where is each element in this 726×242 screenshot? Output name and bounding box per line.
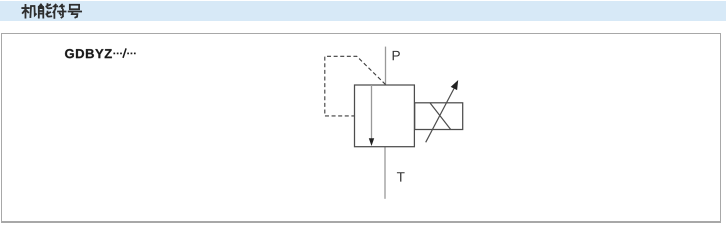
glyph 符 [53, 5, 65, 18]
glyph 号 [69, 5, 81, 18]
solenoid X diagonal [430, 103, 451, 130]
wire T port line [384, 147, 386, 199]
wire P port line [385, 47, 387, 85]
wire internal flow line [371, 85, 373, 140]
arrow internal flow arrowhead [369, 138, 374, 146]
node P label [393, 51, 400, 60]
outer panel [1, 33, 721, 223]
arrow adjustment line [426, 89, 454, 143]
node T label [397, 172, 405, 181]
model label dots and slash [113, 53, 135, 55]
glyph 能 [39, 4, 51, 17]
valve body square [355, 85, 415, 147]
solenoid box [415, 103, 463, 130]
glyph 机 [22, 5, 36, 18]
arrow adjustment arrowhead [451, 80, 459, 90]
header bar [0, 1, 726, 21]
wire pilot dashed line [325, 56, 386, 116]
